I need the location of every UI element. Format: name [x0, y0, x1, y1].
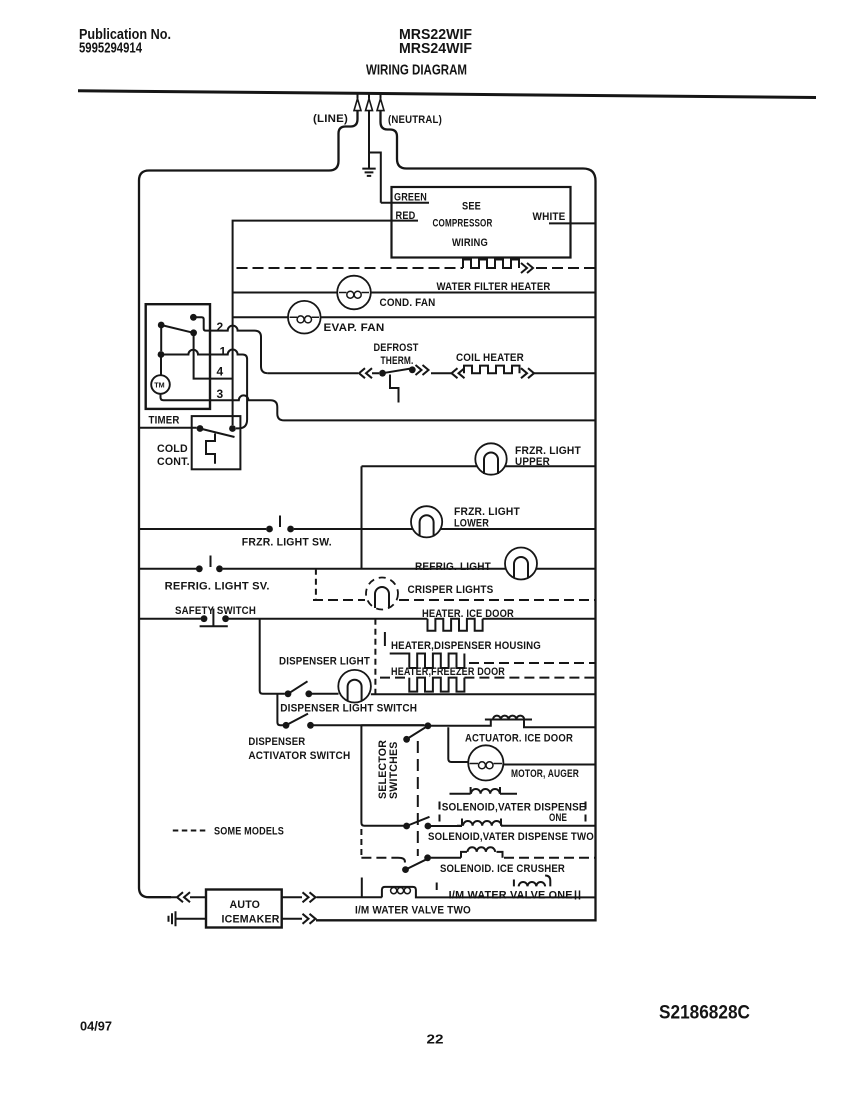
- wire: [268, 372, 358, 374]
- svg-text:ACTUATOR. ICE DOOR: ACTUATOR. ICE DOOR: [465, 733, 573, 745]
- dashed selector bus: [417, 741, 419, 856]
- safety switch: [201, 615, 208, 622]
- white wire: [549, 222, 596, 224]
- svg-text:COND. FAN: COND. FAN: [380, 297, 436, 309]
- wire: [139, 568, 196, 570]
- dashed drop: [315, 569, 317, 600]
- svg-text:DISPENSER LIGHT: DISPENSER LIGHT: [279, 656, 370, 668]
- branch drop: [277, 694, 283, 726]
- svg-text:22: 22: [427, 1032, 444, 1047]
- coil loops: [493, 716, 524, 720]
- wire: [233, 292, 596, 294]
- frzr light switch: [266, 526, 273, 533]
- svg-text:FRZR. LIGHT SW.: FRZR. LIGHT SW.: [242, 537, 332, 549]
- timer contact D: [158, 322, 165, 329]
- dashed wire right: [469, 662, 596, 664]
- branch from safety row: [260, 619, 285, 694]
- timer motor TM: [160, 355, 162, 376]
- heater housing element: [390, 654, 465, 669]
- heater coil element: [464, 366, 520, 374]
- timer contact C and terminal 1 wire: [160, 325, 162, 351]
- svg-text:LOWER: LOWER: [454, 518, 489, 530]
- header rule: [78, 91, 816, 98]
- cold control bellows: [206, 434, 215, 464]
- svg-text:4: 4: [217, 365, 224, 379]
- svg-text:COLD: COLD: [157, 443, 188, 455]
- svg-text:FRZR. LIGHT: FRZR. LIGHT: [454, 506, 520, 518]
- neutral arrow head: [380, 93, 382, 98]
- dashed wire right: [504, 857, 596, 859]
- coil loops: [468, 847, 496, 852]
- svg-text:REFRIG. LIGHT SV.: REFRIG. LIGHT SV.: [165, 581, 270, 593]
- svg-text:WHITE: WHITE: [533, 211, 566, 223]
- lamp crisper (dashed circle): [366, 578, 398, 610]
- dashed wire: [313, 599, 596, 601]
- connector arrows into icemaker: [171, 892, 206, 902]
- svg-text:I/M WATER VALVE ONE: I/M WATER VALVE ONE: [449, 890, 573, 902]
- heater water filter element: [463, 260, 519, 269]
- svg-text:3: 3: [217, 387, 224, 401]
- heater freezer door element: [409, 678, 464, 692]
- dashed drop: [360, 829, 362, 856]
- footer: [80, 1003, 750, 1047]
- svg-text:DISPENSER LIGHT SWITCH: DISPENSER LIGHT SWITCH: [280, 703, 417, 715]
- valve one wire with connector: [282, 896, 382, 898]
- ground arrow head: [368, 93, 370, 98]
- svg-text:HEATER. ICE DOOR: HEATER. ICE DOOR: [422, 608, 514, 620]
- defrost therm capillary stub: [390, 375, 399, 403]
- lamp refrig light: [505, 548, 537, 580]
- dashed drop from safety row: [374, 619, 376, 694]
- svg-text:COIL HEATER: COIL HEATER: [456, 352, 524, 364]
- svg-text:TM: TM: [154, 381, 164, 390]
- svg-text:MOTOR, AUGER: MOTOR, AUGER: [511, 768, 579, 780]
- header model numbers: [366, 27, 472, 78]
- connector chevrons: [416, 365, 429, 375]
- branch: [448, 727, 468, 762]
- svg-text:(NEUTRAL): (NEUTRAL): [388, 114, 442, 126]
- svg-text:ICEMAKER: ICEMAKER: [222, 914, 280, 926]
- svg-text:REFRIG. LIGHT: REFRIG. LIGHT: [415, 561, 491, 573]
- svg-text:CRISPER LIGHTS: CRISPER LIGHTS: [408, 584, 494, 596]
- lamp frzr lower: [411, 506, 442, 537]
- wire: [139, 618, 201, 620]
- svg-text:HEATER,FREEZER DOOR: HEATER,FREEZER DOOR: [391, 666, 505, 678]
- svg-text:THERM.: THERM.: [381, 355, 414, 367]
- svg-text:SWITCHES: SWITCHES: [388, 741, 400, 799]
- svg-text:HEATER,DISPENSER HOUSING: HEATER,DISPENSER HOUSING: [391, 640, 541, 652]
- dashed label brackets: [440, 802, 586, 822]
- svg-text:04/97: 04/97: [80, 1020, 112, 1034]
- wire: [139, 528, 266, 530]
- header publication number: [79, 27, 171, 57]
- selector switch ice door: [425, 722, 432, 729]
- svg-text:I/M WATER VALVE TWO: I/M WATER VALVE TWO: [355, 905, 471, 917]
- solenoid valve one coil (dashed style): [514, 876, 550, 887]
- wire: line conductor + outer west edge + icemaker feed: [139, 110, 358, 897]
- terminal 3 wire: [161, 394, 596, 421]
- wire: [362, 465, 596, 467]
- wire to coil: [431, 852, 503, 858]
- svg-text:WIRING DIAGRAM: WIRING DIAGRAM: [366, 62, 467, 78]
- wire dashed right: [536, 267, 596, 269]
- ground conductor: [368, 110, 370, 168]
- wire: [233, 316, 596, 318]
- svg-text:TIMER: TIMER: [149, 415, 180, 427]
- svg-text:S2186828C: S2186828C: [659, 1003, 750, 1024]
- wire dashed left: [237, 267, 464, 269]
- connector chevrons left: [359, 368, 379, 378]
- svg-text:DEFROST: DEFROST: [374, 342, 419, 354]
- timer contact A and terminal 2 wire: [190, 314, 197, 321]
- coil hump: [382, 887, 596, 898]
- lamp frzr upper: [475, 443, 506, 474]
- motor evap fan: [288, 301, 321, 334]
- ground symbol: [362, 169, 375, 176]
- svg-text:MRS24WIF: MRS24WIF: [399, 41, 472, 57]
- dispenser light switch: [285, 690, 292, 697]
- svg-text:COMPRESSOR: COMPRESSOR: [433, 218, 493, 230]
- svg-text:SEE: SEE: [462, 201, 481, 213]
- svg-text:2: 2: [217, 320, 224, 334]
- svg-text:ACTIVATOR SWITCH: ACTIVATOR SWITCH: [248, 750, 350, 762]
- cold control blade: [200, 429, 235, 438]
- cold control contacts: [197, 425, 204, 432]
- branch from activator row: [361, 725, 424, 826]
- timer contact B and terminal 4 wire: [190, 329, 197, 336]
- svg-text:SAFETY SWITCH: SAFETY SWITCH: [175, 605, 256, 617]
- dashed wires: [380, 677, 596, 679]
- heater ice door element: [428, 619, 483, 631]
- step to contact: [398, 858, 405, 863]
- green wire to compressor: [369, 153, 429, 203]
- refrig light switch: [196, 565, 203, 572]
- coil loops: [463, 821, 501, 826]
- svg-text:SOLENOID. ICE CRUSHER: SOLENOID. ICE CRUSHER: [440, 863, 565, 875]
- svg-text:ONE: ONE: [549, 812, 567, 824]
- svg-text:5995294914: 5995294914: [79, 41, 142, 57]
- branch vertical: [361, 466, 363, 569]
- svg-text:1: 1: [220, 345, 227, 359]
- svg-text:GREEN: GREEN: [394, 192, 427, 204]
- svg-text:WIRING: WIRING: [452, 237, 488, 249]
- svg-text:SOLENOID,VATER DISPENSE TWO: SOLENOID,VATER DISPENSE TWO: [428, 831, 594, 843]
- connector arrows: [521, 263, 533, 273]
- switch: [403, 823, 410, 830]
- timer blade: [161, 325, 193, 333]
- wire with coil: [431, 720, 596, 728]
- valve two wire with connector: [282, 918, 302, 920]
- defrost therm blade: [383, 368, 415, 373]
- svg-text:DISPENSER: DISPENSER: [248, 736, 305, 748]
- svg-text:EVAP. FAN: EVAP. FAN: [324, 322, 385, 334]
- wire: neutral conductor + outer north/east edge + bottom edge: [316, 110, 596, 920]
- motor auger: [468, 745, 503, 780]
- line arrow head: [357, 93, 359, 98]
- switch: [402, 866, 409, 873]
- defrost therm contact dots: [379, 370, 386, 377]
- wire right: [534, 372, 596, 374]
- bracket tick: [384, 632, 386, 646]
- coil loops: [471, 789, 500, 794]
- dispenser activator switch: [283, 722, 290, 729]
- svg-text:CONT.: CONT.: [157, 456, 190, 468]
- red wire from compressor + feed bus down to cold control: [233, 221, 418, 425]
- lamp dispenser light: [338, 670, 371, 703]
- svg-text:WATER FILTER HEATER: WATER FILTER HEATER: [437, 281, 551, 293]
- connector chevrons right: [521, 368, 534, 378]
- svg-text:FRZR. LIGHT: FRZR. LIGHT: [515, 445, 581, 457]
- dashed wire left: [361, 857, 398, 859]
- icemaker ground: [169, 911, 207, 926]
- svg-text:(LINE): (LINE): [313, 113, 348, 125]
- dashed model brackets: [362, 878, 437, 898]
- wire from bus to cold control: [139, 427, 197, 429]
- svg-text:AUTO: AUTO: [230, 899, 261, 911]
- svg-text:UPPER: UPPER: [515, 456, 550, 468]
- svg-text:SOME MODELS: SOME MODELS: [214, 826, 284, 838]
- motor cond fan: [337, 276, 371, 310]
- coil leads: [450, 787, 518, 794]
